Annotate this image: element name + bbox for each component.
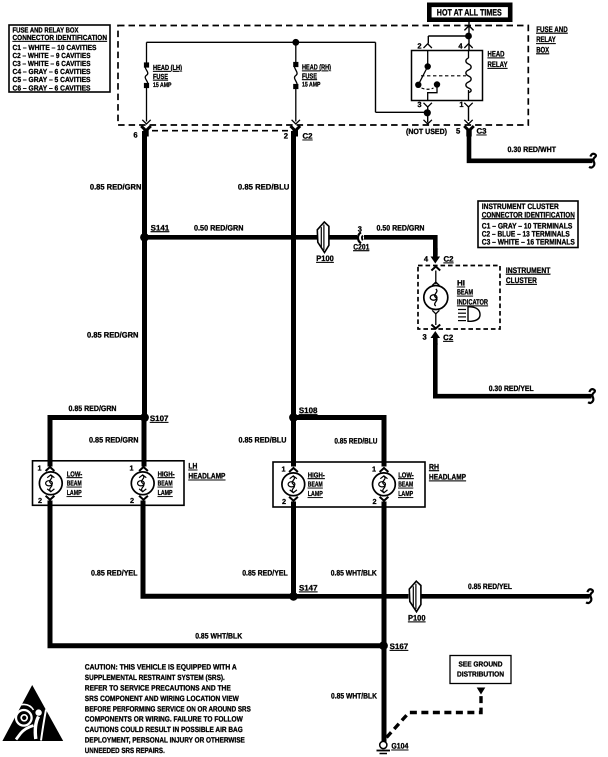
wire S108 branch to RH low beam xyxy=(294,418,385,467)
svg-text:2: 2 xyxy=(38,496,42,505)
svg-text:BOX: BOX xyxy=(536,45,549,54)
wire 0.30 RED/WHT from pin 5 C3 xyxy=(469,133,596,168)
label FUSE AND RELAY BOX (right) xyxy=(536,25,568,55)
svg-text:FUSE AND: FUSE AND xyxy=(536,25,568,34)
label LH HEADLAMP xyxy=(188,462,225,481)
wire: battery feed into fuse/relay box xyxy=(428,22,473,51)
svg-text:CONNECTOR IDENTIFICATION: CONNECTOR IDENTIFICATION xyxy=(482,210,575,219)
svg-text:DEPLOYMENT, PERSONAL INJURY OR: DEPLOYMENT, PERSONAL INJURY OR OTHERWISE xyxy=(85,736,245,745)
svg-text:BEAM: BEAM xyxy=(67,479,82,488)
svg-text:0.30 RED/WHT: 0.30 RED/WHT xyxy=(508,145,557,154)
svg-text:0.50 RED/GRN: 0.50 RED/GRN xyxy=(377,223,425,232)
wire LH high beam to S147 0.85 RED/YEL xyxy=(143,501,294,597)
wire C201 to instrument cluster xyxy=(364,237,435,255)
svg-text:S167: S167 xyxy=(390,642,409,651)
svg-text:C3: C3 xyxy=(477,127,487,136)
svg-text:0.85 RED/GRN: 0.85 RED/GRN xyxy=(87,331,139,340)
relay pin 2 xyxy=(417,42,432,51)
relay switch contact xyxy=(415,51,440,101)
svg-text:0.85 WHT/BLK: 0.85 WHT/BLK xyxy=(331,691,377,700)
label RH HEADLAMP xyxy=(429,462,466,481)
wire RH high beam down to S147 xyxy=(291,502,296,597)
svg-text:1: 1 xyxy=(37,464,41,473)
svg-text:DISTRIBUTION: DISTRIBUTION xyxy=(457,670,504,679)
svg-text:FUSE: FUSE xyxy=(302,71,317,80)
label 0.85 WHT/BLK (bottom run) xyxy=(195,631,242,640)
svg-text:C3 – WHITE – 16 TERMINALS: C3 – WHITE – 16 TERMINALS xyxy=(482,238,575,247)
label 0.85 RED/GRN (upper) xyxy=(90,183,142,192)
label LOW-BEAM LAMP (RH) xyxy=(398,470,414,498)
label 0.85 RED/GRN (S107 branch) xyxy=(69,404,117,413)
wire S107 to LH high beam xyxy=(142,418,147,467)
svg-text:BEAM: BEAM xyxy=(457,288,473,297)
LH high beam lamp xyxy=(129,464,154,506)
svg-text:2: 2 xyxy=(372,497,376,506)
connector pin 6 (Y) xyxy=(133,126,150,140)
svg-text:FUSE: FUSE xyxy=(153,72,168,81)
svg-text:HIGH-: HIGH- xyxy=(158,469,175,478)
svg-text:LOW-: LOW- xyxy=(398,470,414,479)
svg-text:C201: C201 xyxy=(353,242,370,251)
splice S167 xyxy=(379,641,409,651)
svg-text:LAMP: LAMP xyxy=(308,489,323,498)
relay pin 4 xyxy=(458,42,472,51)
wire 0.50 RED/GRN S141 to P100 xyxy=(145,235,318,240)
label LOW-BEAM LAMP (LH) xyxy=(67,469,83,497)
svg-text:LAMP: LAMP xyxy=(67,488,82,497)
instrument cluster dashed outline xyxy=(418,266,500,330)
svg-text:HEAD (LH): HEAD (LH) xyxy=(153,63,182,72)
SEE GROUND DISTRIBUTION box xyxy=(450,656,511,684)
RH low beam lamp xyxy=(372,465,395,507)
svg-text:1: 1 xyxy=(281,465,285,474)
svg-text:HOT AT ALL TIMES: HOT AT ALL TIMES xyxy=(437,8,502,18)
svg-text:2: 2 xyxy=(130,496,134,505)
svg-text:15 AMP: 15 AMP xyxy=(153,82,172,89)
label 0.85 RED/BLU (to RH low) xyxy=(334,437,377,446)
svg-text:S141: S141 xyxy=(151,223,170,232)
label HEAD (RH) FUSE 15 AMP xyxy=(302,63,331,89)
label 0.30 RED/YEL xyxy=(489,384,534,393)
svg-text:2: 2 xyxy=(284,132,288,141)
label 0.85 RED/BLU (to RH high) xyxy=(239,436,287,445)
label HEAD (LH) FUSE 15 AMP xyxy=(153,63,182,89)
svg-text:RELAY: RELAY xyxy=(536,35,556,44)
label 0.50 RED/GRN (right) xyxy=(377,223,425,232)
svg-text:SRS COMPONENT AND WIRING LOCAT: SRS COMPONENT AND WIRING LOCATION VIEW xyxy=(85,694,240,703)
svg-text:C2: C2 xyxy=(443,333,453,342)
svg-text:S107: S107 xyxy=(150,414,169,423)
svg-text:4: 4 xyxy=(424,254,429,263)
label 0.85 WHT/BLK (upper) xyxy=(331,569,377,578)
svg-text:BEAM: BEAM xyxy=(158,479,173,488)
svg-text:LH: LH xyxy=(188,462,197,471)
svg-text:BEAM: BEAM xyxy=(308,480,323,489)
wire: relay pin 3 feed to fuses xyxy=(147,42,428,112)
label INSTRUMENT CLUSTER xyxy=(506,266,551,285)
svg-text:0.85 RED/GRN: 0.85 RED/GRN xyxy=(89,436,139,445)
svg-text:BEFORE PERFORMING SERVICE ON O: BEFORE PERFORMING SERVICE ON OR AROUND S… xyxy=(85,704,251,713)
label 0.50 RED/GRN (left) xyxy=(194,223,244,232)
splice S108 xyxy=(289,406,318,422)
svg-text:HEADLAMP: HEADLAMP xyxy=(188,472,225,481)
svg-text:CAUTIONS COULD RESULT IN POSSI: CAUTIONS COULD RESULT IN POSSIBLE AIR BA… xyxy=(85,725,243,734)
svg-text:HEAD: HEAD xyxy=(488,50,505,59)
svg-text:CONNECTOR IDENTIFICATION: CONNECTOR IDENTIFICATION xyxy=(13,33,108,42)
splice S107 xyxy=(140,413,169,423)
svg-text:HI: HI xyxy=(457,279,465,288)
svg-text:P100: P100 xyxy=(408,614,426,623)
svg-text:0.85 RED/BLU: 0.85 RED/BLU xyxy=(334,437,377,446)
label 0.85 RED/YEL (right) xyxy=(468,582,512,591)
svg-text:S147: S147 xyxy=(299,584,318,593)
relay coil xyxy=(466,51,471,101)
svg-text:INDICATOR: INDICATOR xyxy=(457,298,488,307)
svg-text:LAMP: LAMP xyxy=(158,488,173,497)
connector C2 dashed link xyxy=(152,130,288,132)
fuse HEAD (RH) 15 AMP xyxy=(292,39,300,124)
svg-text:0.50 RED/GRN: 0.50 RED/GRN xyxy=(194,223,244,232)
power tag HOT AT ALL TIMES xyxy=(427,3,513,23)
svg-text:CLUSTER: CLUSTER xyxy=(506,276,537,285)
wire S147 to P100 lower xyxy=(294,594,409,599)
svg-text:G104: G104 xyxy=(391,742,409,751)
label 0.85 RED/YEL (LH) xyxy=(91,569,138,578)
svg-text:3: 3 xyxy=(417,100,421,109)
svg-text:0.85 RED/BLU: 0.85 RED/BLU xyxy=(239,436,287,445)
label 0.30 RED/WHT xyxy=(508,145,557,154)
fuse and relay box dashed outline xyxy=(118,26,528,126)
wire LH low beam to S167 0.85 WHT/BLK xyxy=(50,501,384,646)
svg-text:RH: RH xyxy=(429,462,439,471)
svg-text:INSTRUMENT: INSTRUMENT xyxy=(506,266,551,275)
label 0.85 RED/YEL (RH) xyxy=(242,569,288,578)
RH headlamp box xyxy=(273,462,425,507)
wire 0.85 RED/BLU vertical (RH feed) xyxy=(291,131,296,418)
svg-text:0.85 RED/BLU: 0.85 RED/BLU xyxy=(238,183,290,192)
relay linkage dashed xyxy=(421,75,466,77)
svg-text:REFER TO SERVICE PRECAUTIONS: REFER TO SERVICE PRECAUTIONS AND THE xyxy=(85,683,231,692)
label HIGH-BEAM LAMP (RH) xyxy=(308,470,325,498)
svg-text:LAMP: LAMP xyxy=(398,489,413,498)
wire: relay pin 3 to junction xyxy=(424,107,432,124)
label HIGH-BEAM LAMP (LH) xyxy=(158,469,175,497)
svg-text:(NOT USED): (NOT USED) xyxy=(406,127,447,136)
svg-text:S108: S108 xyxy=(299,406,318,415)
svg-text:3: 3 xyxy=(423,332,427,341)
svg-text:SUPPLEMENTAL RESTRAINT SYSTEM: SUPPLEMENTAL RESTRAINT SYSTEM (SRS). xyxy=(85,673,225,682)
hi beam icon xyxy=(458,307,480,322)
wire: relay pin 1 out of box xyxy=(464,107,472,124)
wire 0.30 RED/YEL xyxy=(435,343,595,403)
svg-text:15 AMP: 15 AMP xyxy=(302,81,321,88)
connector P100 (upper) xyxy=(316,222,334,263)
wire S107 branch to LH low beam xyxy=(50,418,145,467)
splice S147 xyxy=(289,584,318,601)
LH headlamp box xyxy=(33,461,185,506)
wire RH low beam down (0.85 WHT/BLK) xyxy=(382,502,387,743)
svg-text:C2: C2 xyxy=(303,132,313,141)
svg-text:0.85 WHT/BLK: 0.85 WHT/BLK xyxy=(195,631,242,640)
svg-text:0.30 RED/YEL: 0.30 RED/YEL xyxy=(489,384,534,393)
svg-text:3: 3 xyxy=(358,224,362,233)
svg-text:0.85 RED/GRN: 0.85 RED/GRN xyxy=(69,404,117,413)
svg-text:C2: C2 xyxy=(444,255,454,264)
wire P100 to C201 xyxy=(329,235,357,240)
svg-text:2: 2 xyxy=(282,497,286,506)
wire S108 to RH high beam xyxy=(291,418,296,467)
svg-text:HEAD (RH): HEAD (RH) xyxy=(302,63,331,72)
connector C201 pin 3 xyxy=(353,224,370,251)
svg-text:RELAY: RELAY xyxy=(488,60,508,69)
label (NOT USED) xyxy=(406,127,447,136)
svg-text:LOW-: LOW- xyxy=(67,469,83,478)
wire 0.85 RED/GRN vertical (LH feed) xyxy=(142,131,147,418)
svg-text:SEE GROUND: SEE GROUND xyxy=(459,660,503,669)
relay pin 1 xyxy=(459,100,472,109)
splice S141 xyxy=(140,223,170,241)
label HI BEAM INDICATOR xyxy=(457,279,488,307)
svg-text:0.85 RED/YEL: 0.85 RED/YEL xyxy=(468,582,512,591)
label 0.85 RED/GRN (mid) xyxy=(87,331,139,340)
svg-text:BEAM: BEAM xyxy=(398,480,413,489)
legend: fuse and relay box connector identification xyxy=(9,25,110,92)
connector 3 C2 arrow out of cluster xyxy=(423,331,454,345)
svg-text:0.85 WHT/BLK: 0.85 WHT/BLK xyxy=(331,569,377,578)
svg-text:P100: P100 xyxy=(316,254,334,263)
legend: instrument cluster connector identification xyxy=(478,201,578,248)
svg-text:COMPONENTS OR WIRING. FAILURE: COMPONENTS OR WIRING. FAILURE TO FOLLOW xyxy=(85,715,244,724)
svg-text:5: 5 xyxy=(456,127,461,136)
SRS caution triangle icon xyxy=(2,685,63,741)
label HEAD RELAY xyxy=(488,50,508,70)
connector pin 2 C2 (Y) xyxy=(284,126,313,141)
connector pin 5 C3 (Y) xyxy=(456,126,486,137)
label 0.85 WHT/BLK (lower) xyxy=(331,691,377,700)
svg-text:HIGH-: HIGH- xyxy=(308,470,325,479)
svg-text:1: 1 xyxy=(129,464,133,473)
caution text block xyxy=(85,663,251,755)
svg-text:UNNEEDED SRS REPAIRS.: UNNEEDED SRS REPAIRS. xyxy=(85,746,165,755)
svg-text:0.85 RED/YEL: 0.85 RED/YEL xyxy=(91,569,138,578)
svg-text:2: 2 xyxy=(417,42,421,51)
connector P100 (lower) xyxy=(408,581,426,622)
svg-text:0.85 RED/GRN: 0.85 RED/GRN xyxy=(90,183,142,192)
svg-text:C6 – GRAY – 6 CAVITIES: C6 – GRAY – 6 CAVITIES xyxy=(13,83,91,92)
wire P100 to right squiggle 0.85 RED/YEL xyxy=(421,589,593,603)
label 0.85 RED/GRN (to high beam) xyxy=(89,436,139,445)
svg-text:HEADLAMP: HEADLAMP xyxy=(429,473,466,482)
relay box outline (HEAD RELAY U1) xyxy=(412,51,483,101)
ground G104 xyxy=(377,741,409,753)
svg-text:1: 1 xyxy=(372,465,376,474)
svg-text:6: 6 xyxy=(133,131,137,140)
relay pin 3 xyxy=(417,100,432,109)
LH low beam lamp xyxy=(37,464,62,506)
RH high beam lamp xyxy=(281,465,304,507)
fuse HEAD (LH) 15 AMP xyxy=(142,42,150,124)
hi beam indicator lamp xyxy=(424,267,448,329)
dashed path to ground distribution xyxy=(387,688,486,738)
connector 4 C2 arrow into cluster xyxy=(424,248,454,264)
svg-text:CAUTION: THIS VEHICLE IS EQUI: CAUTION: THIS VEHICLE IS EQUIPPED WITH A xyxy=(85,663,237,672)
svg-text:1: 1 xyxy=(459,100,463,109)
svg-text:0.85 RED/YEL: 0.85 RED/YEL xyxy=(242,569,288,578)
label 0.85 RED/BLU (upper) xyxy=(238,183,290,192)
